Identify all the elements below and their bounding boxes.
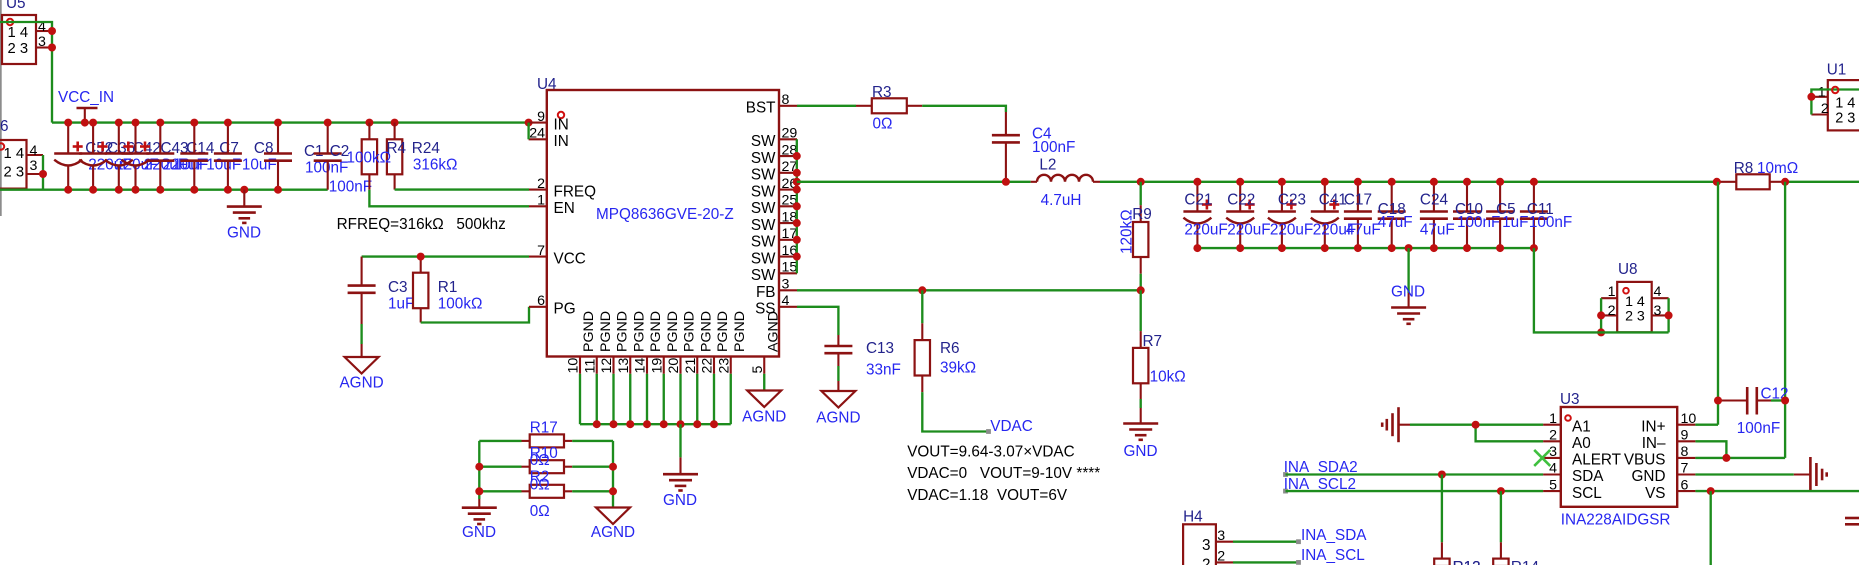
- U4 pin 20 PGND: [666, 311, 698, 374]
- svg-text:AGND: AGND: [816, 410, 860, 427]
- U3 pin 9 IN&#8211;: [1642, 428, 1696, 453]
- svg-text:SW: SW: [751, 200, 776, 217]
- U3 pin 6 VS: [1645, 477, 1695, 502]
- junction dots bottom rail: [64, 186, 282, 194]
- junction dots U8 nodes: [1597, 311, 1673, 336]
- capacitor C21: [1183, 182, 1227, 248]
- wire H4 pin2 wire: [1233, 561, 1299, 563]
- svg-text:IN: IN: [554, 117, 569, 134]
- U4 pin 10 PGND: [566, 311, 598, 374]
- connector U1: [1811, 62, 1859, 131]
- svg-text:3: 3: [1549, 444, 1557, 460]
- svg-text:220uF: 220uF: [1184, 221, 1227, 238]
- wire SW bus: [796, 139, 798, 273]
- svg-text:L2: L2: [1039, 156, 1056, 173]
- svg-text:7: 7: [537, 243, 545, 259]
- wire VBUS wire: [1695, 457, 1785, 459]
- U3 pin 8 VBUS: [1624, 444, 1696, 469]
- capacitor C52: [54, 123, 131, 190]
- capacitor C7: [180, 123, 241, 190]
- svg-text:120kΩ: 120kΩ: [1119, 209, 1136, 254]
- U4 pin 9 IN: [529, 109, 569, 134]
- svg-text:12: 12: [599, 358, 615, 374]
- svg-text:0Ω: 0Ω: [530, 452, 550, 469]
- svg-text:SW: SW: [751, 250, 776, 267]
- wire PGND drop 697.25: [696, 374, 698, 424]
- svg-text:SW: SW: [751, 267, 776, 284]
- svg-text:1: 1: [1608, 284, 1616, 300]
- IC U4 MPQ8636: [537, 76, 779, 357]
- svg-text:MPQ8636GVE-20-Z: MPQ8636GVE-20-Z: [596, 206, 734, 223]
- svg-text:C17: C17: [1344, 192, 1372, 209]
- U4 pin 15 SW: [751, 260, 798, 284]
- power symbol GND (U3 pin7): [1794, 457, 1827, 492]
- wire A0 wire: [1476, 425, 1544, 442]
- junction dots output rail: [1002, 178, 1145, 186]
- svg-text:GND: GND: [1391, 284, 1425, 301]
- svg-text:U1: U1: [1827, 62, 1847, 79]
- capacitor C36: [79, 123, 158, 190]
- resistor R6: [915, 323, 977, 392]
- wire output bank bottom rail: [1197, 247, 1534, 249]
- svg-text:3: 3: [38, 34, 46, 50]
- svg-text:9: 9: [1681, 428, 1689, 444]
- svg-text:GND: GND: [1632, 468, 1666, 485]
- svg-text:1: 1: [1818, 84, 1826, 100]
- wire VCC wire: [362, 255, 529, 257]
- junction dots U5 pins: [48, 27, 56, 52]
- U4 pin 12 PGND: [599, 311, 631, 374]
- inductor L2: [1031, 156, 1100, 209]
- svg-text:11: 11: [582, 359, 598, 374]
- svg-text:100nF: 100nF: [1737, 420, 1780, 437]
- svg-text:1: 1: [1549, 411, 1557, 427]
- U3 pin 4 SDA: [1543, 461, 1604, 486]
- wire PGND drop 647: [646, 374, 648, 424]
- svg-text:10uF: 10uF: [173, 157, 208, 174]
- svg-text:PGND: PGND: [581, 311, 597, 352]
- power symbol AGND (C13): [816, 381, 860, 427]
- svg-text:1uF: 1uF: [388, 296, 414, 313]
- svg-text:23: 23: [716, 358, 732, 374]
- U4 pin 5 AGND: [750, 311, 782, 374]
- U4 pin 29 SW: [751, 126, 798, 150]
- wire U6 pin tie: [42, 155, 44, 190]
- svg-text:C22: C22: [1227, 192, 1255, 209]
- capacitor C4: [992, 112, 1075, 182]
- svg-text:29: 29: [782, 126, 798, 142]
- svg-text:0Ω: 0Ω: [530, 477, 550, 494]
- svg-text:ALERT: ALERT: [1572, 452, 1621, 469]
- junction dots VS node: [1707, 487, 1715, 495]
- svg-text:R6: R6: [940, 340, 960, 357]
- wire VCC_IN top rail: [52, 121, 529, 123]
- capacitor C2: [314, 123, 372, 196]
- crop artifact gray line: [0, 0, 2, 216]
- svg-text:EN: EN: [554, 200, 575, 217]
- junction dots SDA/SCL nodes: [1438, 471, 1505, 496]
- wire R3 to C4: [922, 106, 1006, 112]
- wire U8 left tie: [1600, 298, 1602, 332]
- svg-text:C24: C24: [1420, 192, 1449, 209]
- svg-text:PGND: PGND: [665, 311, 681, 352]
- connector U5: [2, 0, 52, 64]
- junction dots output bank bottom: [1193, 244, 1538, 252]
- svg-text:U3: U3: [1560, 391, 1580, 408]
- wire R4 to EN: [369, 190, 529, 207]
- U4 pin 4 SS: [755, 293, 797, 317]
- svg-text:22: 22: [700, 358, 716, 374]
- U4 pin 28 SW: [751, 142, 798, 166]
- svg-text:10uF: 10uF: [242, 157, 277, 174]
- svg-text:FB: FB: [756, 284, 776, 301]
- wire PGND drop 714: [713, 374, 715, 424]
- U4 pin 14 PGND: [633, 311, 665, 374]
- svg-text:SW: SW: [751, 167, 776, 184]
- svg-text:100kΩ: 100kΩ: [347, 150, 392, 167]
- svg-text:1 4: 1 4: [8, 25, 29, 41]
- wire PGND drop 730.75: [730, 374, 732, 424]
- U4 pin 27 SW: [751, 159, 798, 183]
- wire SDA wire: [1286, 473, 1544, 475]
- svg-text:4.7uH: 4.7uH: [1041, 192, 1082, 209]
- resistor R17: [479, 419, 613, 447]
- svg-text:2: 2: [1549, 428, 1557, 444]
- svg-text:2: 2: [1608, 303, 1616, 319]
- svg-text:R17: R17: [530, 419, 558, 436]
- net label INA_SCL2: [1283, 489, 1288, 494]
- resistor R7: [1133, 331, 1186, 399]
- resistor R3: [856, 84, 922, 133]
- svg-text:AGND: AGND: [591, 524, 635, 541]
- U3 pin 2 A0: [1543, 428, 1591, 453]
- wire R24 to FREQ: [395, 188, 529, 190]
- svg-text:39kΩ: 39kΩ: [940, 360, 976, 377]
- capacitor C13: [824, 335, 900, 379]
- U4 pin 16 SW: [751, 243, 798, 267]
- junction dots PGND bus: [593, 420, 718, 428]
- svg-text:2 3: 2 3: [8, 41, 29, 57]
- U4 pin 11 PGND: [582, 311, 614, 374]
- svg-text:AGND: AGND: [742, 409, 786, 426]
- svg-text:1 4: 1 4: [4, 146, 25, 162]
- U3 pin 3 ALERT: [1543, 444, 1621, 469]
- junction dots R8 nodes: [1713, 178, 1789, 186]
- wire VS wire: [1695, 490, 1859, 492]
- wire U5 to VCC_IN rail: [0, 22, 52, 123]
- resistor R13: [1434, 542, 1480, 565]
- capacitor C23: [1268, 182, 1313, 248]
- svg-text:VBUS: VBUS: [1624, 452, 1666, 469]
- svg-text:5: 5: [750, 366, 766, 374]
- connector U8: [1601, 261, 1669, 332]
- wire pin9-pin24 tie: [527, 123, 529, 140]
- resistor R24: [387, 123, 458, 190]
- svg-text:4: 4: [30, 143, 38, 159]
- svg-text:GND: GND: [1124, 443, 1158, 460]
- U3 pin 5 SCL: [1543, 477, 1602, 502]
- svg-text:R24: R24: [412, 140, 441, 157]
- junction dots A1 node: [1472, 421, 1480, 429]
- wire C3 to AGND: [360, 324, 362, 344]
- svg-text:5: 5: [1549, 477, 1557, 493]
- wire BST wire: [797, 105, 856, 107]
- svg-text:PGND: PGND: [682, 311, 698, 352]
- svg-text:SW: SW: [751, 234, 776, 251]
- svg-text:3: 3: [1217, 528, 1225, 544]
- net label INA_SCL: [1296, 560, 1301, 565]
- svg-text:7: 7: [1681, 461, 1689, 477]
- svg-text:R8: R8: [1734, 160, 1754, 177]
- junction dots VBUS node: [1722, 454, 1730, 462]
- wire FB to R7: [1140, 290, 1142, 331]
- capacitor (cropped, right edge): [1845, 518, 1859, 524]
- power symbol AGND (C3): [339, 344, 383, 392]
- power symbol AGND (stack): [591, 508, 635, 542]
- wire U8 right tie: [1667, 298, 1669, 332]
- wire R7 to GND: [1140, 399, 1142, 408]
- svg-text:VDAC=0 VOUT=9-10V ****: VDAC=0 VOUT=9-10V ****: [907, 465, 1100, 482]
- U4 pin 25 SW: [751, 193, 798, 217]
- power symbol GND (input bank): [227, 190, 262, 242]
- U4 pin 1 EN: [529, 193, 575, 217]
- svg-text:14: 14: [633, 358, 649, 374]
- power flag VCC_IN: [58, 89, 114, 123]
- svg-text:9: 9: [537, 109, 545, 125]
- svg-text:4: 4: [782, 293, 790, 309]
- svg-text:SW: SW: [751, 217, 776, 234]
- wire GND bottom rail: [0, 189, 328, 191]
- svg-text:3: 3: [782, 277, 790, 293]
- wire VS drop: [1710, 491, 1712, 565]
- wire rail to right edge: [1785, 181, 1859, 183]
- svg-text:47uF: 47uF: [1346, 221, 1381, 238]
- svg-text:VDAC=1.18 VOUT=6V: VDAC=1.18 VOUT=6V: [907, 487, 1068, 504]
- svg-text:33nF: 33nF: [866, 362, 901, 379]
- pin-1 indicator U1: [1832, 87, 1838, 93]
- svg-text:U5: U5: [6, 0, 26, 12]
- junction dots VCC node: [417, 253, 425, 261]
- wire PGND drop 663.75: [663, 374, 665, 424]
- svg-text:R1: R1: [438, 279, 458, 296]
- svg-text:PGND: PGND: [598, 311, 614, 352]
- pin-1 indicator U3: [1565, 415, 1571, 421]
- connector U6: [0, 118, 43, 189]
- svg-text:VDAC: VDAC: [990, 418, 1033, 435]
- svg-text:1uF: 1uF: [1502, 214, 1528, 231]
- wire SCL wire: [1286, 490, 1544, 492]
- wire PGND drop 613.5: [612, 374, 614, 424]
- svg-text:PGND: PGND: [631, 311, 647, 352]
- resistor R2: [479, 469, 613, 520]
- svg-text:20: 20: [666, 358, 682, 374]
- svg-text:BST: BST: [746, 100, 776, 117]
- svg-text:C41: C41: [1319, 192, 1347, 209]
- svg-text:VCC: VCC: [554, 250, 586, 267]
- svg-text:2 3: 2 3: [4, 165, 25, 181]
- svg-text:IN: IN: [554, 133, 569, 150]
- svg-text:47uF: 47uF: [1420, 221, 1455, 238]
- U4 pin 21 PGND: [683, 311, 715, 374]
- svg-text:R3: R3: [872, 84, 892, 101]
- U4 pin 24 IN: [529, 126, 569, 151]
- power symbol GND (stack): [462, 499, 497, 541]
- capacitor C11: [1520, 182, 1572, 248]
- svg-text:C23: C23: [1278, 192, 1306, 209]
- wire H4 pin3 wire: [1233, 541, 1299, 543]
- capacitor C3: [348, 257, 415, 324]
- svg-text:6: 6: [1681, 477, 1689, 493]
- svg-text:VCC_IN: VCC_IN: [58, 89, 114, 106]
- wire R1 to PG: [421, 307, 529, 323]
- svg-text:A0: A0: [1572, 435, 1591, 452]
- wire rail to R9: [1140, 182, 1142, 205]
- wire IN+ wire: [1695, 424, 1718, 426]
- pin-1 indicator U5: [7, 19, 13, 25]
- capacitor C24: [1420, 182, 1455, 248]
- pin-1 indicator U8: [1623, 288, 1629, 294]
- U3 pin 7 GND: [1632, 461, 1696, 486]
- resistor R14: [1493, 542, 1508, 565]
- no-connect X on ALERT: [1534, 450, 1550, 466]
- svg-text:U8: U8: [1618, 261, 1638, 278]
- svg-text:VOUT=9.64-3.07×VDAC: VOUT=9.64-3.07×VDAC: [907, 444, 1074, 461]
- U4 pin 7 VCC: [529, 243, 586, 267]
- junction dots U1 node: [1807, 93, 1815, 101]
- U4 pin 26 SW: [751, 176, 798, 200]
- svg-text:PG: PG: [554, 301, 576, 318]
- U4 pin 23 PGND: [716, 311, 748, 374]
- note VOUT formula: [907, 444, 1100, 504]
- svg-text:47uF: 47uF: [1378, 214, 1413, 231]
- power symbol GND (R7): [1123, 408, 1158, 460]
- power symbol GND (A0/A1): [1382, 407, 1410, 442]
- svg-text:3: 3: [1202, 537, 1211, 554]
- capacitor C5: [1486, 182, 1528, 248]
- wire IN- wire: [1695, 441, 1726, 458]
- svg-text:2: 2: [1821, 101, 1829, 117]
- U4 pin 22 PGND: [700, 311, 732, 374]
- net label INA_SDA2: [1283, 472, 1288, 477]
- capacitor C18: [1378, 182, 1413, 248]
- svg-text:10kΩ: 10kΩ: [1150, 369, 1186, 386]
- svg-text:15: 15: [782, 260, 798, 276]
- svg-text:100nF: 100nF: [1032, 139, 1075, 156]
- svg-text:2: 2: [1217, 549, 1225, 565]
- svg-text:H4: H4: [1183, 509, 1203, 526]
- wire R14 drop: [1500, 491, 1502, 542]
- U4 pin 19 PGND: [649, 311, 681, 374]
- svg-text:PGND: PGND: [648, 311, 664, 352]
- svg-text:13: 13: [616, 358, 632, 374]
- pin-1 indicator U4: [558, 112, 564, 118]
- svg-text:100nF: 100nF: [1529, 214, 1572, 231]
- capacitor C1: [264, 123, 348, 190]
- power symbol GND (output bank): [1391, 284, 1426, 324]
- svg-text:0Ω: 0Ω: [873, 116, 893, 133]
- junction dots stack nodes: [475, 463, 617, 496]
- svg-text:INA228AIDGSR: INA228AIDGSR: [1561, 512, 1671, 529]
- svg-text:RFREQ=316kΩ 500khz: RFREQ=316kΩ 500khz: [337, 216, 506, 233]
- svg-text:2: 2: [1202, 557, 1211, 565]
- capacitor C22: [1226, 182, 1270, 248]
- IC U3 INA228: [1560, 391, 1677, 529]
- svg-text:6: 6: [0, 118, 9, 135]
- wire SW to L2: [797, 181, 1031, 183]
- wire bank GND tick: [1407, 248, 1409, 293]
- junction dots output bank top: [1193, 178, 1538, 186]
- wire PGND drop 580: [579, 374, 581, 424]
- capacitor C43: [122, 123, 206, 190]
- wire PGND to GND: [679, 424, 681, 457]
- svg-text:100nF: 100nF: [1457, 214, 1500, 231]
- svg-text:GND: GND: [227, 225, 261, 242]
- svg-text:INA_SCL: INA_SCL: [1301, 547, 1365, 564]
- svg-text:220uF: 220uF: [1227, 221, 1270, 238]
- svg-text:PGND: PGND: [715, 311, 731, 352]
- svg-text:100nF: 100nF: [329, 178, 372, 195]
- svg-text:SCL: SCL: [1572, 485, 1602, 502]
- svg-text:SDA: SDA: [1572, 468, 1604, 485]
- capacitor C42: [105, 123, 187, 190]
- svg-text:19: 19: [649, 358, 665, 374]
- wire PGND bus: [580, 423, 731, 425]
- svg-text:VS: VS: [1645, 485, 1665, 502]
- wire FB to R6: [921, 290, 923, 323]
- svg-text:SW: SW: [751, 133, 776, 150]
- wire sense left vertical: [1717, 182, 1719, 425]
- svg-text:2: 2: [537, 176, 545, 192]
- wire PGND drop 596.75: [596, 374, 598, 424]
- wire AGND pin5 wire: [763, 374, 765, 391]
- svg-text:SW: SW: [751, 183, 776, 200]
- svg-text:8: 8: [1681, 444, 1689, 460]
- wire L2 to rail: [1100, 181, 1717, 183]
- svg-text:C1: C1: [304, 143, 324, 160]
- capacitor C10: [1453, 182, 1500, 248]
- svg-text:IN+: IN+: [1641, 418, 1665, 435]
- svg-text:1 4: 1 4: [1835, 96, 1855, 112]
- svg-text:GND: GND: [462, 524, 496, 541]
- pin-1 indicator U6: [0, 143, 4, 149]
- svg-text:AGND: AGND: [765, 311, 781, 352]
- wire SS wire: [797, 307, 838, 335]
- wire PGND drop 680.5: [679, 374, 681, 424]
- wire FB wire: [797, 289, 1141, 291]
- svg-text:IN–: IN–: [1642, 435, 1666, 452]
- svg-text:C21: C21: [1184, 192, 1212, 209]
- wire bank GND to U8: [1534, 248, 1669, 332]
- svg-text:10mΩ: 10mΩ: [1757, 160, 1798, 177]
- resistor R8: [1717, 160, 1798, 189]
- svg-text:R7: R7: [1143, 333, 1163, 350]
- U4 pin 3 FB: [756, 277, 797, 301]
- svg-text:0Ω: 0Ω: [530, 503, 550, 520]
- svg-text:AGND: AGND: [339, 375, 383, 392]
- svg-text:8: 8: [782, 92, 790, 108]
- wire sense right vertical: [1784, 182, 1786, 458]
- resistor R1: [413, 257, 482, 323]
- svg-text:316kΩ: 316kΩ: [413, 156, 458, 173]
- wire C12 right wire: [1771, 399, 1785, 401]
- wire stack right vertical: [612, 441, 614, 508]
- junction dots U6 pin3 node: [39, 170, 47, 178]
- wire GND pin wire: [1695, 473, 1793, 475]
- svg-text:R14: R14: [1511, 559, 1540, 565]
- U4 pin 13 PGND: [616, 311, 648, 374]
- svg-text:PGND: PGND: [615, 311, 631, 352]
- svg-text:C3: C3: [388, 279, 408, 296]
